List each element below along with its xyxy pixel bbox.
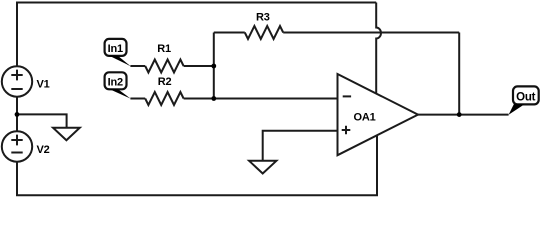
svg-text:Out: Out <box>516 91 536 103</box>
wire: In1 tag to R1 left lead <box>130 65 145 67</box>
op-amp non-inverting input plus sign <box>342 126 351 135</box>
wire: R2 right lead to op-amp inverting input <box>184 98 338 100</box>
ground (below op-amp non-inverting input) <box>249 161 276 174</box>
net tag In2 <box>105 72 131 98</box>
junction: mid node between V1 and V2 <box>15 112 20 117</box>
svg-text:OA1: OA1 <box>354 112 376 124</box>
resistor R1 <box>145 60 183 73</box>
wire: V2 minus terminal to bottom negative rail to op-amp V- pin <box>17 135 377 195</box>
wire: op-amp output to Out tag <box>418 114 509 116</box>
svg-text:In1: In1 <box>108 43 123 55</box>
wire: V1 minus to mid node <box>16 96 18 114</box>
junction: output node to feedback riser <box>457 112 462 117</box>
svg-text:R3: R3 <box>256 12 270 24</box>
junction: R1 to inverting node <box>211 64 216 69</box>
wire: inverting node vertical (R1 node to R2 node) <box>213 33 215 99</box>
wire: R3 right lead across to output riser <box>283 32 459 34</box>
wire: In2 tag to R2 left lead <box>130 98 145 100</box>
junction: R2 to inverting node <box>211 96 216 101</box>
svg-text:V1: V1 <box>37 78 50 90</box>
wire: op-amp non-inverting input to lower ground <box>263 131 338 161</box>
wire: feedback riser down to output node <box>458 33 460 115</box>
resistor R2 <box>145 92 183 105</box>
svg-text:R2: R2 <box>158 76 172 88</box>
wire: inverting node up to R3 left lead <box>214 32 245 34</box>
voltage source V2 <box>2 131 32 161</box>
wire: R1 right lead to inverting node <box>184 65 214 67</box>
op-amp inverting input minus sign <box>343 95 351 97</box>
wire: positive rail drop to op-amp V+ pin with hop over feedback <box>376 3 381 94</box>
svg-text:R1: R1 <box>157 43 171 55</box>
svg-text:V2: V2 <box>37 144 50 156</box>
net tag In1 <box>105 39 131 66</box>
net tag Out <box>509 86 539 114</box>
wire: V1 plus terminal to top positive rail <box>17 3 376 68</box>
wire: mid node to V2 plus <box>16 114 18 132</box>
ground (left, between V1 and V2) <box>53 128 80 141</box>
svg-text:In2: In2 <box>108 77 123 89</box>
op-amp U1 (OA1) triangle body <box>338 74 419 155</box>
wire: mid node branch to left ground <box>17 114 67 127</box>
voltage source V1 <box>2 66 32 96</box>
resistor R3 <box>245 26 283 39</box>
